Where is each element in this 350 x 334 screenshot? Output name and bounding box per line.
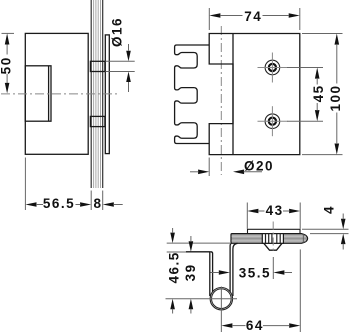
svg-text:4: 4 (322, 205, 337, 214)
svg-text:56.5: 56.5 (43, 196, 75, 211)
opposite clamping strip (105, 35, 109, 154)
glass panel edge lines (91, 0, 103, 188)
knuckle barrel bottom (side view) (90, 116, 105, 126)
dimension 46.5 (167, 228, 230, 314)
dimension Ø16 (106, 17, 135, 92)
dimension 64 (221, 249, 300, 333)
svg-text:74: 74 (244, 9, 262, 24)
pivot arm strap right wall (230, 243, 237, 296)
clamp screw cone below nut (264, 243, 282, 250)
dimension 39 (167, 236, 198, 314)
pivot boss circle (210, 288, 232, 310)
dimension 4 (302, 205, 349, 250)
plate/barrel separation line (232, 34, 234, 155)
wall bracket ledge and left wall (186, 252, 213, 296)
screw hole top (258, 53, 288, 83)
svg-text:64: 64 (246, 318, 264, 333)
mating leaf comb (175, 45, 210, 144)
top cover plate (bottom view) (248, 229, 301, 233)
svg-text:39: 39 (183, 263, 198, 281)
knuckle barrel top (side view) (90, 61, 105, 71)
svg-text:43: 43 (266, 203, 284, 218)
dimension 43 (247, 203, 300, 229)
hinge plate (side view body) (25, 33, 88, 154)
dimension 74 (209, 8, 299, 30)
vertical centerline barrel axis (220, 26, 222, 175)
svg-text:8: 8 (93, 196, 102, 211)
dimension 45 (287, 68, 326, 122)
clamp bar body (231, 234, 308, 244)
dimension 50 (0, 33, 14, 93)
svg-text:Ø16: Ø16 (110, 17, 125, 47)
svg-text:46.5: 46.5 (167, 251, 182, 283)
svg-text:50: 50 (0, 56, 14, 74)
front plate outline (209, 34, 300, 155)
dimension 35.5 (211, 257, 293, 280)
nut centerline (272, 222, 274, 254)
svg-text:45: 45 (311, 84, 326, 102)
dimension 100 (302, 34, 343, 155)
svg-text:100: 100 (328, 84, 343, 111)
screw hole bottom (258, 106, 288, 136)
pivot crosshair and extension (166, 287, 238, 333)
adjustment nut (knurled section) (262, 234, 283, 244)
cover cap recess rectangle (25, 66, 51, 121)
horizontal centerline left view (1, 93, 119, 95)
dimension Ø20 (190, 158, 274, 177)
svg-text:Ø20: Ø20 (244, 159, 274, 174)
svg-text:35.5: 35.5 (239, 265, 271, 280)
dimension 56.5 and 8 (25, 158, 122, 212)
